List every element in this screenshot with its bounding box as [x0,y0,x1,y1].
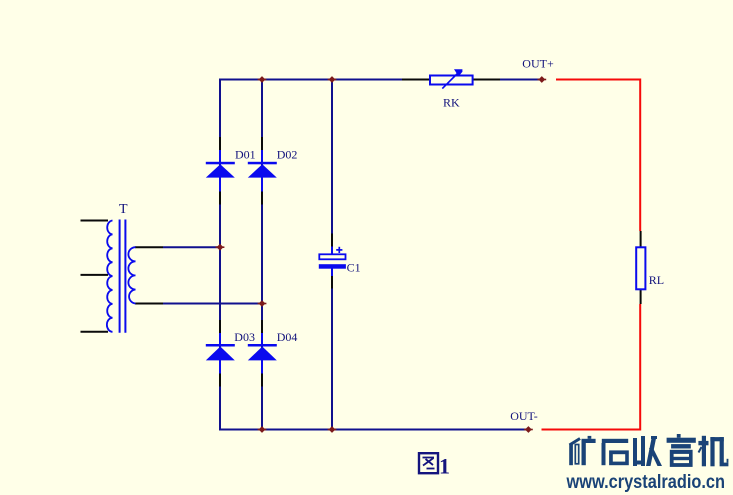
svg-text:1: 1 [439,454,450,479]
svg-text:RL: RL [649,273,664,287]
svg-text:OUT-: OUT- [510,409,538,423]
svg-text:T: T [119,202,128,217]
svg-text:www.crystalradio.cn: www.crystalradio.cn [566,472,725,493]
svg-text:C1: C1 [347,260,361,274]
svg-text:RK: RK [443,95,460,109]
svg-text:D04: D04 [277,330,298,344]
svg-text:D02: D02 [277,148,298,162]
svg-text:D03: D03 [234,330,255,344]
svg-text:OUT+: OUT+ [522,57,554,71]
svg-text:D01: D01 [235,148,256,162]
